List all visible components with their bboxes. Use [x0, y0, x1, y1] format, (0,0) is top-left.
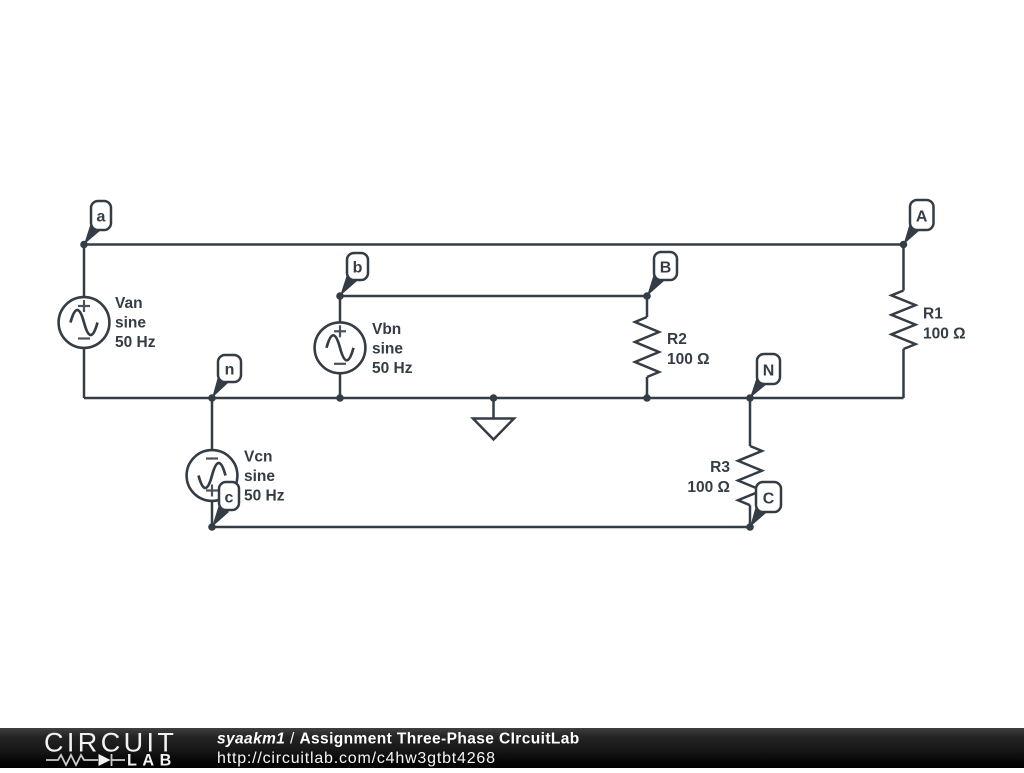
junction ground bus	[490, 394, 498, 402]
resistor R1	[892, 291, 966, 350]
ground	[473, 398, 514, 440]
node flag C	[750, 482, 781, 527]
voltage source Van	[59, 295, 156, 351]
wire top a to A	[84, 243, 904, 246]
wire R3 bottom to C	[749, 505, 752, 527]
svg-text:50 Hz: 50 Hz	[372, 360, 413, 377]
svg-text:sine: sine	[244, 468, 275, 485]
wire a to Van top	[83, 245, 86, 298]
resistor R2	[635, 317, 710, 377]
svg-text:Van: Van	[115, 295, 143, 312]
wire B to R2 top	[646, 296, 649, 317]
svg-text:C: C	[763, 491, 775, 508]
voltage source Vbn	[315, 321, 413, 377]
junction R2 bus	[643, 394, 651, 402]
footer bar	[0, 728, 1024, 768]
svg-text:a: a	[97, 209, 106, 226]
svg-text:R1: R1	[923, 306, 943, 323]
node C junction	[746, 523, 754, 531]
svg-text:http://circuitlab.com/c4hw3gtb: http://circuitlab.com/c4hw3gtbt4268	[217, 750, 496, 767]
resistor R3	[687, 446, 762, 505]
svg-text:LAB: LAB	[127, 752, 177, 769]
voltage source Vcn (flipped)	[187, 449, 285, 505]
svg-text:sine: sine	[372, 341, 403, 358]
wire Van bottom to bus	[83, 349, 86, 398]
svg-text:sine: sine	[115, 315, 146, 332]
wire R2 bottom to bus	[646, 377, 649, 398]
node n junction	[208, 394, 216, 402]
logo resistor-diode doodle	[46, 754, 125, 766]
node flag N	[750, 354, 780, 398]
node flag B	[647, 252, 677, 296]
svg-text:Vcn: Vcn	[244, 449, 272, 466]
wire R1 bottom to bus	[902, 349, 905, 398]
node flag n	[212, 355, 241, 398]
wire Vcn bottom to c	[211, 501, 214, 527]
svg-text:100 Ω: 100 Ω	[667, 351, 710, 368]
wire A to R1 top	[902, 245, 905, 291]
node flag A	[904, 200, 934, 245]
svg-text:100 Ω: 100 Ω	[687, 479, 730, 496]
wire bottom c to C	[212, 526, 750, 529]
svg-text:A: A	[916, 209, 928, 226]
wire N to R3 top	[749, 398, 752, 446]
wire Vbn bottom to bus	[339, 373, 342, 398]
svg-text:b: b	[353, 260, 363, 277]
node b junction	[336, 292, 344, 300]
node flag b	[340, 253, 368, 296]
node A junction	[900, 241, 908, 249]
wire b to B	[340, 295, 647, 298]
svg-text:syaakm1 / Assignment Three-Pha: syaakm1 / Assignment Three-Phase CIrcuit…	[217, 731, 580, 748]
svg-text:n: n	[225, 362, 235, 379]
node flag a	[84, 201, 111, 245]
node flag c	[212, 482, 239, 527]
svg-text:50 Hz: 50 Hz	[115, 334, 156, 351]
node B junction	[643, 292, 651, 300]
svg-text:N: N	[763, 363, 775, 380]
wire neutral bus	[84, 397, 904, 400]
svg-text:R2: R2	[667, 331, 687, 348]
svg-text:B: B	[660, 260, 672, 277]
svg-text:Vbn: Vbn	[372, 321, 401, 338]
svg-text:50 Hz: 50 Hz	[244, 488, 285, 505]
svg-text:c: c	[225, 490, 234, 507]
svg-text:100 Ω: 100 Ω	[923, 326, 966, 343]
node a junction	[80, 241, 88, 249]
wire b to Vbn top	[339, 296, 342, 323]
svg-text:R3: R3	[710, 459, 730, 476]
wire n to Vcn top	[211, 398, 214, 450]
junction Vbn bus	[336, 394, 344, 402]
node N junction	[746, 394, 754, 402]
node c junction	[208, 523, 216, 531]
